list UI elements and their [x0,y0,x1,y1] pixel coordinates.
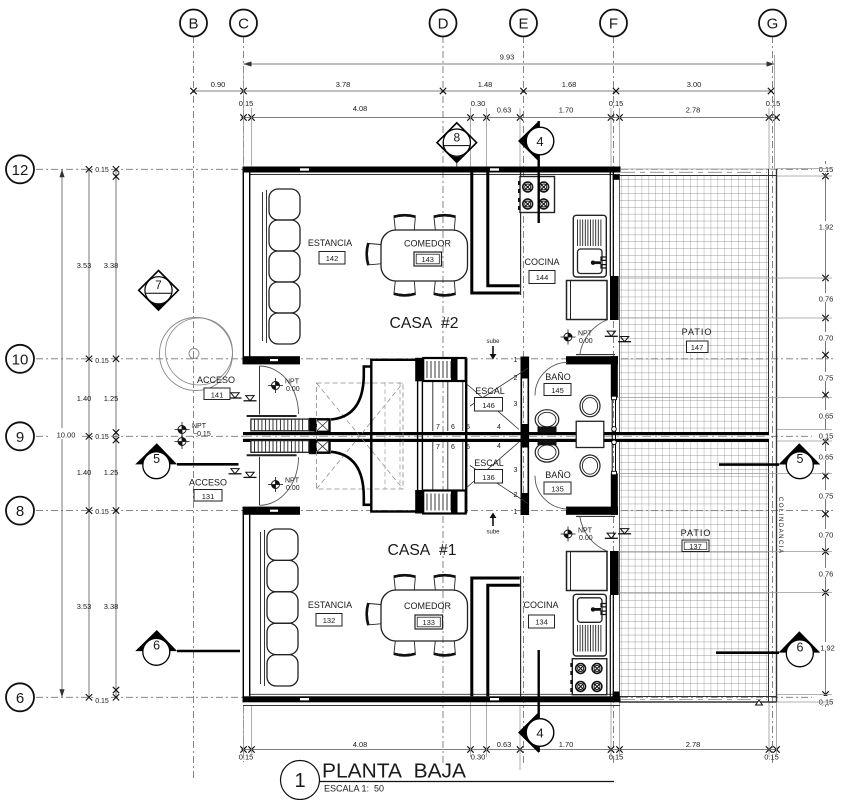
wall stub steps-to-column casa2 [309,418,316,432]
svg-text:1: 1 [514,509,518,516]
NPT marker porch casa2 [175,422,211,438]
room label ESTANCIA 132 [308,600,352,626]
entry door leaf casa2 [259,366,261,415]
svg-text:0.15: 0.15 [95,509,109,516]
svg-text:3.78: 3.78 [336,80,351,89]
bathroom bottom wall casa1 [566,507,618,515]
svg-text:142: 142 [326,254,339,263]
svg-text:1.40: 1.40 [77,394,92,403]
svg-text:6: 6 [153,639,160,653]
stair step numbers casa2 [436,357,518,431]
room label COMEDOR 133 [404,601,452,629]
svg-text:ESCALA 1: 50: ESCALA 1: 50 [324,784,384,794]
svg-text:COLINDANCIA: COLINDANCIA [777,497,783,555]
main flight treads casa2 [433,382,463,431]
svg-text:PATIO: PATIO [681,528,712,538]
svg-text:E: E [518,16,528,33]
section marker 5 right [719,443,820,479]
svg-text:0.00: 0.00 [286,386,300,393]
room label ESTANCIA 142 [308,238,352,264]
diamond marker 8 [437,123,477,167]
svg-text:8: 8 [453,131,460,145]
room label PATIO 137 [681,528,712,552]
garden tree circle [160,318,233,391]
entry door leaf casa1 [259,457,261,506]
axis 12 horizontal line [36,168,833,170]
room label ESCAL 146 [475,386,505,411]
svg-text:0.15: 0.15 [819,432,834,441]
svg-text:C: C [238,16,249,33]
svg-text:6: 6 [797,640,804,654]
right extension lines [777,169,833,703]
svg-text:1.92: 1.92 [820,644,835,653]
svg-text:3: 3 [514,467,518,474]
stair step numbers casa1 [436,443,518,516]
title underline [320,781,614,783]
svg-text:0.15: 0.15 [95,358,109,365]
porch entry steps casa1 [247,441,309,456]
svg-text:0.65: 0.65 [819,412,834,421]
title CASA #2 [390,315,459,332]
axis bubble B [180,10,207,37]
svg-text:1: 1 [514,357,518,364]
casa1 front porch wall [243,507,301,515]
svg-text:2: 2 [514,375,518,382]
axis 10 horizontal line [36,358,833,360]
svg-text:1: 1 [294,770,305,792]
bath door arc casa2 [535,362,567,395]
sube arrow casa1 [486,513,500,536]
NPT marker hall casa2 [268,378,300,393]
NPT marker hall casa1 [268,477,300,492]
svg-text:135: 135 [551,485,564,494]
dimension row 3 [239,99,781,121]
svg-text:COCINA: COCINA [524,257,559,267]
svg-text:147: 147 [691,343,704,352]
stove casa2 [518,177,555,213]
svg-text:0.76: 0.76 [819,295,834,304]
svg-text:2: 2 [514,492,518,499]
bathroom top wall casa2 [566,356,618,364]
svg-text:3.00: 3.00 [687,80,702,89]
stair inner wall double line [415,358,423,514]
stair diagonal break lines casa1 [466,442,528,504]
left dim chain 3 [93,166,119,706]
hall-patio door leaf casa2 [576,354,615,356]
level symbols patio edge casa1 [605,529,631,539]
section marker 6 left [135,630,240,665]
svg-text:0.00: 0.00 [579,535,593,542]
NPT marker porch casa1 [175,434,190,449]
svg-text:0.63: 0.63 [497,740,512,749]
svg-text:5: 5 [797,452,804,466]
svg-text:4: 4 [536,134,543,149]
lavatory basin casa1 [580,455,600,477]
bottom exterior wall [243,694,621,705]
stair diagonal break lines casa2 [466,368,528,430]
svg-text:G: G [767,16,779,33]
svg-text:0.15: 0.15 [819,165,834,174]
svg-text:ACCESO: ACCESO [189,478,227,488]
room label ACCESO 141 [197,375,235,400]
bath door arc casa1 [535,476,567,509]
svg-text:ESCAL: ESCAL [474,458,504,468]
title block circle 1 [281,761,320,800]
left dim chain total 10.00 [50,169,82,697]
svg-text:5: 5 [466,444,470,451]
left dim chain 2 [77,166,93,700]
svg-text:NPT: NPT [285,478,300,485]
kitchen right wall casa1 [610,551,619,697]
svg-text:7: 7 [436,444,440,451]
svg-text:BAÑO: BAÑO [545,470,571,480]
svg-text:134: 134 [535,618,548,627]
svg-text:B: B [188,16,198,33]
hall-patio door arc casa2 [580,320,608,355]
svg-text:1.40: 1.40 [77,468,92,477]
svg-text:9: 9 [16,429,24,446]
axis bubble F [600,10,627,37]
level symbols porch casa2 [229,393,257,401]
party wall double band [243,432,769,442]
hall-patio door leaf casa1 [576,515,615,517]
dining chairs casa1 [367,575,456,655]
svg-text:0.15: 0.15 [609,99,624,108]
svg-text:132: 132 [323,616,336,625]
bottom dimension row [239,740,780,762]
axis bubble E [510,10,537,37]
svg-text:1.25: 1.25 [104,468,119,477]
svg-text:NPT: NPT [578,331,593,338]
axis bubble 6 [6,683,34,711]
svg-text:1.25: 1.25 [104,394,119,403]
kitchen sink unit casa2 [573,215,606,277]
room label BA&Ntilde;O 145 [544,372,571,396]
flare wall casa1 [331,452,372,505]
svg-text:COMEDOR: COMEDOR [404,239,452,249]
axis G vertical line [772,36,774,765]
left wall lower (estancia casa1) [243,515,249,703]
svg-text:6: 6 [16,690,24,707]
dining table casa1 [381,590,468,641]
kitchen divider L-wall casa2 [472,173,521,296]
NPT marker kitchen hall casa1 [561,527,593,543]
bathroom east wall casa2 [611,356,618,397]
patio horizontal level lines [611,278,832,593]
svg-text:0.76: 0.76 [819,570,834,579]
upper flight treads casa2 [423,358,466,381]
bottom extension lines [244,702,777,770]
svg-text:0.70: 0.70 [819,334,834,343]
room label COMEDOR 143 [404,239,452,267]
svg-text:PLANTA BAJA: PLANTA BAJA [322,761,467,783]
main flight treads casa1 [433,441,463,490]
section marker 5 left [135,443,238,478]
double-height dashed rectangle [317,383,404,489]
axis F vertical line [613,36,615,765]
svg-text:10: 10 [12,351,29,368]
colindancia vertical text [777,497,783,555]
svg-text:137: 137 [689,542,702,551]
svg-text:ACCESO: ACCESO [197,375,235,385]
axis bubble 8 [6,497,34,525]
svg-text:145: 145 [551,386,564,395]
axis bubble 10 [6,345,34,373]
axis 9 horizontal line [36,435,833,437]
svg-text:0.75: 0.75 [819,374,834,383]
room label COCINA 134 [523,600,558,628]
svg-text:CASA #2: CASA #2 [390,315,459,332]
axis bubble D [430,10,457,37]
svg-text:6: 6 [451,444,455,451]
svg-text:0.15: 0.15 [766,99,781,108]
room label PATIO 147 [682,327,713,353]
svg-text:10.00: 10.00 [57,431,76,440]
toilet casa2 [535,410,559,433]
axis D vertical line [442,36,444,765]
top exterior wall [243,167,621,175]
svg-text:−0.15: −0.15 [193,431,211,438]
axis C vertical line [243,36,245,762]
dining chairs casa2 [367,215,456,295]
entry door arc casa2 [260,366,299,414]
sofa casa2 [263,189,301,344]
bathroom window strip [612,396,617,475]
svg-text:D: D [438,16,449,33]
sube arrow casa2 [486,339,500,360]
flag marker 4 top [518,121,554,223]
porch column casa1 [316,440,330,453]
svg-text:143: 143 [421,255,434,264]
casa2 front porch wall [243,356,301,364]
svg-text:141: 141 [211,391,224,400]
axis B vertical line [193,36,195,779]
svg-text:0.63: 0.63 [497,106,512,115]
svg-text:ESCAL: ESCAL [475,386,505,396]
bathroom east wall casa1 [611,474,618,515]
svg-text:0.15: 0.15 [239,99,254,108]
section marker 6 right [716,631,820,667]
svg-text:0.30: 0.30 [471,99,486,108]
svg-text:136: 136 [482,473,495,482]
entry door arc casa1 [260,457,299,505]
axis E vertical line [523,36,525,765]
svg-text:5: 5 [153,452,160,466]
flare wall casa2 [331,367,372,420]
hall-patio door arc casa1 [580,517,608,552]
svg-text:1.70: 1.70 [559,740,574,749]
svg-text:3: 3 [514,401,518,408]
stair block outline [371,360,466,512]
svg-text:PATIO: PATIO [682,327,713,337]
svg-text:2.78: 2.78 [686,106,701,115]
porch column casa2 [316,419,330,432]
svg-text:146: 146 [482,401,495,410]
svg-text:4: 4 [497,424,501,431]
room label ESCAL 136 [474,458,504,483]
svg-text:4.08: 4.08 [353,740,368,749]
stove casa1 [570,659,607,695]
svg-text:2.78: 2.78 [686,740,701,749]
svg-text:1.68: 1.68 [562,80,577,89]
title CASA #1 [388,542,457,559]
kitchen divider L-wall casa1 [472,576,521,696]
svg-text:0.15: 0.15 [95,167,109,174]
svg-text:sube: sube [486,339,500,345]
svg-text:7: 7 [436,424,440,431]
svg-text:NPT: NPT [192,423,207,430]
svg-text:12: 12 [12,162,29,179]
svg-text:0.30: 0.30 [471,753,486,762]
stair interior dashed projection [385,382,400,489]
top extension lines [244,55,775,175]
svg-text:CASA #1: CASA #1 [388,542,457,559]
title PLANTA BAJA [322,761,467,783]
axis bubble 12 [6,155,34,183]
refrigerator casa2 [567,281,608,320]
diamond marker 7 [139,271,179,311]
svg-text:4.08: 4.08 [353,104,368,113]
svg-text:sube: sube [486,530,500,536]
svg-text:0.15: 0.15 [95,434,109,441]
dimension row 1 total 9.93 [244,53,775,67]
svg-text:1.92: 1.92 [819,223,834,232]
title ESCALA 1: 50 [324,784,384,794]
lower flight treads casa1 [423,491,466,514]
svg-text:0.00: 0.00 [286,485,300,492]
kitchen right wall casa2 [610,173,619,321]
left wall upper (estancia casa2) [243,167,249,357]
svg-text:3.38: 3.38 [104,261,119,270]
svg-text:0.65: 0.65 [819,453,834,462]
NPT marker kitchen hall casa2 [561,330,593,346]
svg-text:COCINA: COCINA [523,600,558,610]
refrigerator casa1 [567,552,608,591]
svg-text:0.75: 0.75 [819,492,834,501]
svg-text:F: F [609,16,618,33]
svg-text:131: 131 [202,492,215,501]
svg-text:6: 6 [451,424,455,431]
lavatory counter shared [576,421,604,447]
svg-text:8: 8 [16,503,24,520]
right dim chain [812,161,840,707]
svg-text:133: 133 [422,618,435,627]
svg-text:144: 144 [536,273,549,282]
svg-text:0.15: 0.15 [95,698,109,705]
svg-text:BAÑO: BAÑO [545,372,571,382]
dimension row 2 [190,80,774,94]
svg-text:5: 5 [466,424,470,431]
svg-text:9.93: 9.93 [500,53,515,62]
svg-text:7: 7 [155,278,162,292]
axis bubble 9 [6,422,34,450]
svg-text:ESTANCIA: ESTANCIA [308,600,352,610]
svg-text:NPT: NPT [578,528,593,535]
svg-text:ESTANCIA: ESTANCIA [308,238,352,248]
svg-text:4: 4 [536,726,543,741]
svg-text:3.38: 3.38 [104,602,119,611]
lavatory basin casa2 [580,395,600,417]
stairwell east wall (axis E) [521,357,529,516]
kitchen sink unit casa1 [573,594,606,656]
svg-text:3.53: 3.53 [77,261,92,270]
svg-text:0.00: 0.00 [579,338,593,345]
svg-text:COMEDOR: COMEDOR [404,601,452,611]
toilet casa1 [535,439,559,462]
patio hatch [620,176,769,697]
room label ACCESO 131 [189,478,227,502]
level symbols patio edge casa2 [605,331,631,342]
level symbols porch casa1 [229,469,257,478]
dining table casa2 [381,230,468,281]
axis 6 horizontal line [36,696,833,698]
svg-text:0.90: 0.90 [211,80,226,89]
axis bubble C [230,10,257,37]
wall stub steps-to-column casa1 [309,441,316,455]
svg-text:3.53: 3.53 [77,602,92,611]
svg-text:4: 4 [497,443,501,450]
flag marker 4 bottom [518,650,554,753]
svg-text:NPT: NPT [285,379,300,386]
sofa casa1 [261,529,299,686]
axis 8 horizontal line [36,510,833,512]
svg-text:1.48: 1.48 [478,80,493,89]
svg-text:1.70: 1.70 [559,106,574,115]
room label COCINA 144 [524,257,559,284]
room label BA&Ntilde;O 135 [544,470,571,494]
axis bubble G [759,10,786,37]
patio boundary lines [620,169,777,705]
svg-text:0.70: 0.70 [819,531,834,540]
porch entry steps casa2 [247,416,309,431]
